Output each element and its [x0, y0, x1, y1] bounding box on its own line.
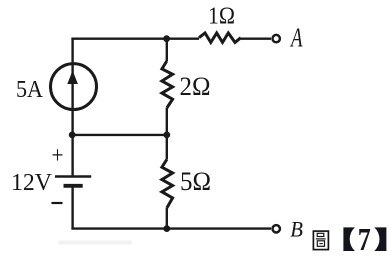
- node dot: top node T: [163, 35, 170, 42]
- current source I1 circle: [51, 64, 97, 110]
- wire: R1 right lead to terminal A: [241, 38, 271, 40]
- battery V1 minus sign: [52, 202, 63, 204]
- caption glyph: Chinese character Tu (figure) drawn as shapes: [313, 231, 328, 250]
- node dot: bottom node: [163, 225, 170, 232]
- svg-text:5Ω: 5Ω: [180, 166, 211, 196]
- wire: battery bottom plate down to bottom rail: [71, 186, 73, 229]
- svg-text:5A: 5A: [16, 76, 43, 103]
- wire: R3 top lead from node M2: [166, 135, 168, 160]
- wire: top rail from left corner to node T: [71, 38, 166, 40]
- terminal A (open circle): [273, 35, 280, 42]
- svg-text:2Ω: 2Ω: [180, 72, 211, 101]
- wire: node T down to R2: [166, 39, 168, 61]
- wire: left rail vertical (through current source): [71, 38, 73, 135]
- wire: R3 bottom lead to bottom node: [166, 208, 168, 229]
- svg-text:1Ω: 1Ω: [208, 3, 235, 30]
- svg-text:7: 7: [358, 222, 371, 257]
- resistor R1 1ohm (horizontal zigzag): [199, 33, 241, 42]
- current source I1 arrowhead (points up): [67, 71, 78, 85]
- battery V1 long plate (+): [55, 175, 91, 178]
- caption bracket: closing lenticular bracket: [374, 227, 386, 251]
- svg-text:B: B: [290, 217, 303, 242]
- wire: middle rail from node M1 to node M2: [73, 134, 167, 136]
- svg-text:A: A: [290, 23, 303, 53]
- caption bracket: opening lenticular bracket: [343, 227, 355, 251]
- wire: node T to resistor R1 left lead: [167, 38, 199, 40]
- node dot: M1 (left middle): [69, 132, 76, 139]
- wire: R2 bottom to middle node M2: [166, 108, 168, 135]
- resistor R3 5ohm (vertical zigzag): [162, 160, 173, 209]
- node dot: M2 (right middle): [163, 132, 170, 139]
- svg-text:12V: 12V: [11, 169, 52, 196]
- resistor R2 2ohm (vertical zigzag): [162, 61, 173, 108]
- scan smudge artifact: [58, 241, 132, 245]
- battery V1 short plate (-): [64, 184, 83, 188]
- wire: node M1 down to battery top plate: [71, 135, 73, 177]
- wire: bottom rail to terminal B: [71, 227, 271, 229]
- terminal B (open circle): [273, 225, 280, 232]
- svg-text:+: +: [52, 143, 64, 169]
